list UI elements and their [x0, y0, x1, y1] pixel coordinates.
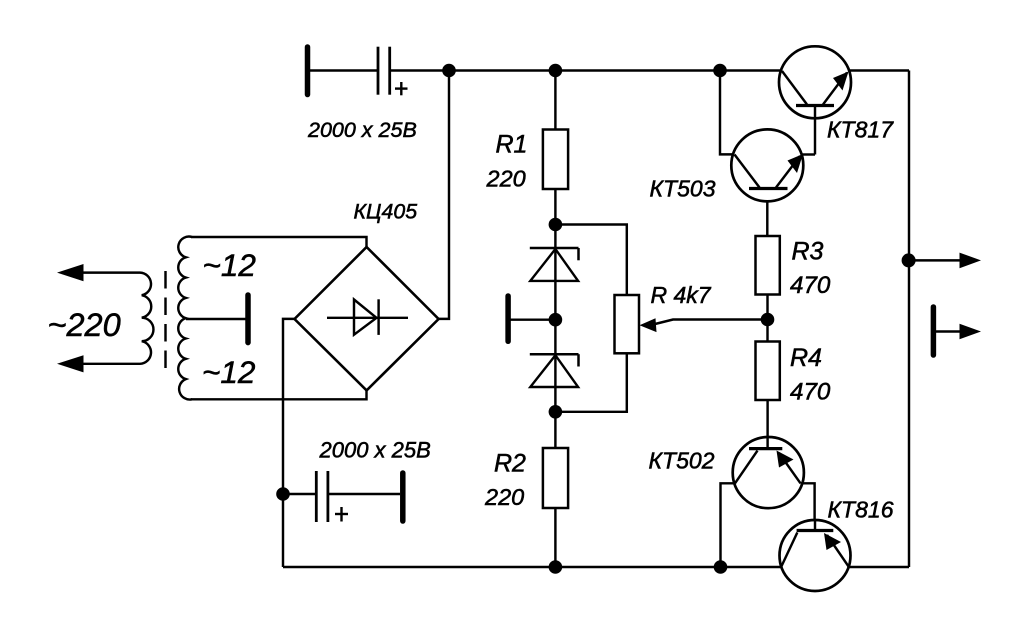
wire bottom rail — [283, 566, 909, 568]
wire C2 left — [283, 493, 315, 495]
arrow output common — [960, 324, 982, 340]
wire middle column — [554, 71, 556, 568]
plus sign C1 — [395, 82, 408, 95]
capacitor C2 2000x25V — [316, 471, 328, 522]
wire KT502 collector to bottom rail — [721, 483, 736, 567]
svg-text:~220: ~220 — [48, 307, 121, 343]
resistor R2 — [543, 448, 568, 508]
svg-text:R1: R1 — [496, 131, 528, 159]
wire output positive — [909, 259, 962, 261]
wire right rail — [908, 71, 910, 568]
wire ref tap to node — [510, 318, 555, 320]
svg-text:~12: ~12 — [203, 247, 257, 283]
capacitor C1 2000x25V — [378, 47, 390, 95]
terminal bar input cap C1 — [305, 47, 311, 95]
resistor R3 — [756, 236, 780, 295]
terminal bar center tap — [245, 295, 251, 343]
transformer primary winding — [83, 273, 153, 364]
wire pot bottom branch — [555, 353, 626, 412]
svg-text:R2: R2 — [494, 450, 526, 478]
svg-text:КТ817: КТ817 — [827, 117, 894, 143]
wire secondary top to bridge — [191, 237, 367, 248]
svg-text:R 4k7: R 4k7 — [651, 282, 712, 308]
terminal bar C2 — [400, 473, 406, 521]
node zener bottom — [549, 405, 563, 419]
node top rail junction C — [713, 64, 727, 78]
transistor Q2 KT503 — [731, 129, 815, 201]
node top rail junction B — [549, 64, 563, 78]
svg-text:КЦ405: КЦ405 — [354, 200, 418, 224]
wire center tap — [186, 318, 246, 320]
wire bridge left down to bottom rail — [283, 319, 296, 567]
zener diode VD1 — [530, 248, 579, 281]
wire R3 to node — [766, 295, 768, 342]
potentiometer R 4k7 — [615, 295, 640, 353]
wire secondary bottom to bridge — [191, 390, 367, 399]
node output positive — [902, 253, 916, 267]
transistor Q3 KT502 — [733, 437, 804, 508]
wire top rail to KT503 collector — [720, 71, 735, 155]
wire bridge right to top rail — [438, 71, 449, 319]
plus sign C2 — [335, 507, 348, 522]
svg-text:2000 x 25В: 2000 x 25В — [307, 118, 417, 142]
wire pot top branch — [555, 225, 626, 296]
arrow primary bottom — [57, 355, 84, 372]
wire R4 to KT502 base — [766, 400, 768, 449]
pot wiper arrow — [640, 318, 768, 332]
node C2 junction — [276, 487, 290, 501]
transistor Q4 KT816 — [780, 520, 851, 591]
svg-text:2000 x 25В: 2000 x 25В — [319, 438, 431, 463]
node R1 bottom — [549, 218, 563, 232]
wire output common — [935, 330, 962, 332]
arrow primary top — [57, 264, 84, 281]
node bottom rail R2 — [549, 560, 563, 574]
svg-text:220: 220 — [486, 166, 526, 192]
svg-text:R3: R3 — [792, 238, 824, 266]
arrow output positive — [960, 253, 982, 269]
wire cap1 left — [309, 69, 377, 71]
svg-text:КТ503: КТ503 — [650, 176, 716, 202]
transistor Q1 KT817 — [779, 46, 851, 154]
svg-text:R4: R4 — [790, 344, 822, 372]
svg-text:470: 470 — [790, 272, 831, 299]
terminal bar reference tap — [505, 296, 511, 341]
transformer core dashed line — [164, 271, 166, 370]
svg-text:КТ502: КТ502 — [649, 448, 715, 474]
node bottom rail KT502 — [714, 560, 728, 574]
zener diode VD2 — [530, 354, 579, 387]
wire C2 right — [329, 493, 400, 495]
wire top rail — [391, 69, 909, 71]
node zener middle — [549, 313, 563, 327]
resistor R4 — [756, 342, 780, 401]
terminal bar output common — [931, 307, 937, 355]
transformer secondary winding — [178, 237, 192, 400]
svg-text:220: 220 — [484, 484, 524, 510]
bridge rectifier KC405 diamond — [295, 247, 439, 390]
wire KT502 emitter to KT816 base — [801, 483, 815, 530]
node top rail junction A — [442, 64, 456, 78]
bridge inner diode — [327, 299, 408, 335]
node R3 R4 junction — [761, 313, 775, 327]
wire KT503 base to R3 — [766, 190, 768, 236]
svg-text:470: 470 — [790, 379, 831, 406]
resistor R1 — [543, 130, 568, 190]
svg-text:~12: ~12 — [202, 354, 256, 390]
svg-text:КТ816: КТ816 — [828, 497, 894, 523]
